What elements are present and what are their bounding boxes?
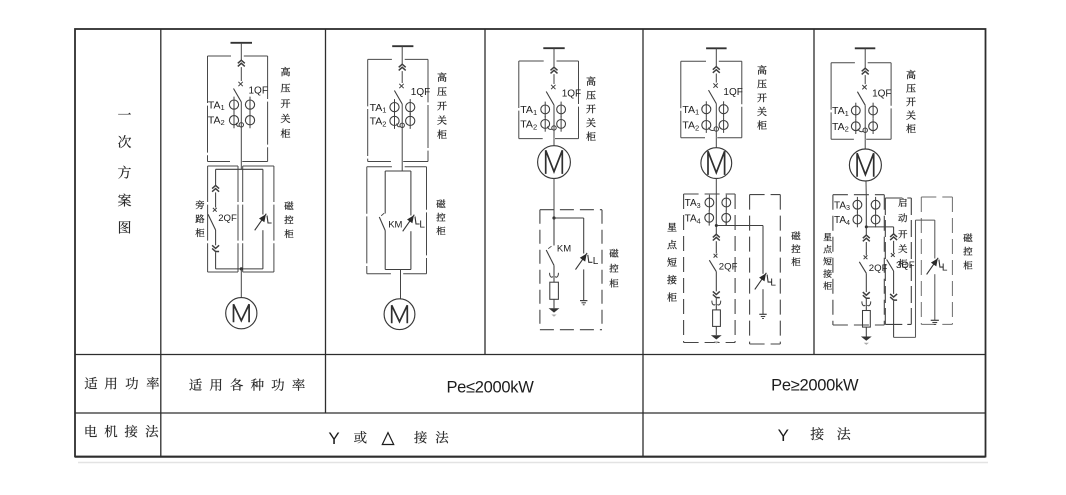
S3 magnetic-control cabinet dashed box xyxy=(540,209,602,211)
row header 电机接法 xyxy=(86,425,97,437)
S1 left branch wire lower xyxy=(215,230,217,245)
S4 star-point breaker 2QF xyxy=(714,254,718,258)
S2 wire to breaker xyxy=(401,71,403,83)
S1 right branch wire lower xyxy=(262,230,264,269)
S1 left branch wire middle xyxy=(215,192,217,207)
S5 drawout connector arcs xyxy=(862,301,865,305)
S4 wire fuse to earth xyxy=(715,326,717,335)
S5 wire switchgear to motor xyxy=(864,139,866,149)
S4 current transformer TA3 xyxy=(705,198,714,207)
S4 drawout contact (upper) xyxy=(713,67,720,73)
S5 wire to 2QF xyxy=(865,242,867,255)
scheme 2 group xyxy=(367,46,447,329)
S5 wire to fuse xyxy=(865,299,867,311)
svg-text:2QF: 2QF xyxy=(218,213,237,224)
S2 parallel branch rectangle top xyxy=(385,170,411,172)
S4 wire 2QF to lower drawout xyxy=(715,272,717,292)
S4 current transformer TA2 (two cores) xyxy=(702,121,711,130)
S5 HV switchgear cabinet box xyxy=(831,62,855,64)
S2 current transformer TA2 (two cores) xyxy=(390,116,399,125)
S2 cabinet label 磁控柜 xyxy=(436,199,445,208)
cell text 适用各种功率 xyxy=(189,379,202,391)
S1 magnetic-control cabinet box xyxy=(243,165,274,167)
S5 main wire through CT section xyxy=(865,198,867,235)
S2 wire switchgear to control cabinet xyxy=(401,162,403,172)
S5 drawout contact upper (2QF branch) xyxy=(863,235,870,241)
S4 fuse FU xyxy=(713,310,721,327)
S4 cabinet label 星点短接柜 xyxy=(667,223,676,232)
S2 left branch wire lower xyxy=(384,231,386,270)
S3 drawout connector arcs xyxy=(550,273,553,277)
S4 wire through CT section xyxy=(715,104,717,138)
table row line y2 xyxy=(75,412,986,414)
S4 thyristor valve L xyxy=(755,273,767,290)
table row line y1 xyxy=(75,354,986,356)
svg-text:KM: KM xyxy=(557,244,571,255)
S5 circuit breaker 1QF xyxy=(862,85,866,89)
S3 earth symbol xyxy=(580,300,587,302)
S5 starting branch wire upper xyxy=(893,227,895,234)
S2 wire through CT section xyxy=(401,104,403,162)
S4 thyristor branch wire upper xyxy=(762,226,764,274)
S2 left branch wire upper xyxy=(384,171,386,214)
S3 wire to breaker xyxy=(553,74,555,84)
S5 wire to 3QF xyxy=(893,241,895,253)
S1 drawout contact left branch upper xyxy=(212,186,219,192)
S3 current transformer TA2 (two cores) xyxy=(541,120,550,129)
S3 tap wire to thyristor branch xyxy=(554,217,584,219)
S2 right branch wire upper xyxy=(410,171,412,216)
row header 适用功率 xyxy=(85,377,98,389)
S5 star-point shorting cabinet dashed box xyxy=(833,194,884,196)
S4 circuit breaker 1QF xyxy=(713,83,717,87)
S5 starting switch cabinet dashed box xyxy=(885,197,911,199)
S5 cabinet label 星点短接柜 xyxy=(823,233,831,241)
delta symbol xyxy=(382,433,393,445)
S5 thyristor valve L xyxy=(927,258,939,275)
S4 incoming busbar tap xyxy=(706,47,727,49)
S5 earth symbol xyxy=(931,319,939,321)
S4 wire to breaker xyxy=(715,74,717,83)
S1 motor M xyxy=(226,298,257,329)
svg-text:2QF: 2QF xyxy=(869,263,888,274)
S3 HV switchgear cabinet box xyxy=(519,60,544,62)
S5 current transformer TA4 xyxy=(853,215,862,224)
S5 wire fuse to earth xyxy=(865,327,867,336)
S1 bypass breaker 2QF xyxy=(213,208,217,212)
S5 drawout contact lower (2QF branch) xyxy=(863,292,870,298)
S1 incoming busbar tap xyxy=(231,42,253,44)
S1 wire to motor xyxy=(240,269,242,298)
svg-text:Y: Y xyxy=(778,426,789,445)
S5 wire 3QF branch to loop bottom xyxy=(893,301,895,338)
S4 star-point shorting cabinet dashed box xyxy=(684,193,736,195)
S3 branch junction node xyxy=(552,216,555,219)
S4 current transformer TA4 xyxy=(705,213,714,222)
S1 right branch wire upper xyxy=(262,169,264,214)
row header 一次方案图 xyxy=(118,113,131,115)
S4 cabinet label 高压开关柜 xyxy=(758,65,767,74)
table column line x=325.5 xyxy=(325,29,327,413)
S3 wire fuse to earth xyxy=(553,299,555,308)
S2 current transformer TA1 (two cores) xyxy=(390,103,399,112)
S2 HV switchgear cabinet box xyxy=(368,58,392,60)
table outer border xyxy=(75,29,986,457)
S4 HV switchgear cabinet box xyxy=(681,60,706,62)
S3 drawout contact (upper) xyxy=(551,67,558,73)
S5 CT secondary earth circle xyxy=(858,129,863,132)
S2 wire to motor xyxy=(400,270,402,300)
S1 wire switchgear to bypass cabinets xyxy=(240,162,242,170)
svg-text:L: L xyxy=(942,262,948,273)
S5 loop bottom wire xyxy=(894,336,916,338)
svg-text:Pe≤2000kW: Pe≤2000kW xyxy=(446,379,534,397)
S5 loop riser wire xyxy=(915,220,917,337)
svg-text:Pe≥2000kW: Pe≥2000kW xyxy=(771,377,859,395)
S1 left branch wire bottom xyxy=(215,252,217,269)
S5 wire busbar to cabinet xyxy=(864,48,866,68)
S5 magnetic-control cabinet dashed box xyxy=(921,196,952,198)
S4 tap wire to thyristor branch xyxy=(716,225,763,227)
S5 wire to breaker xyxy=(864,75,866,84)
S4 wire switchgear to motor xyxy=(715,138,717,148)
S1 circuit breaker 1QF xyxy=(238,82,242,86)
S5 drawout contact upper (3QF branch) xyxy=(890,234,897,240)
svg-text:1QF: 1QF xyxy=(872,89,891,100)
S2 parallel branch rectangle bottom xyxy=(385,269,411,271)
S5 current transformer TA2 (two cores) xyxy=(851,122,860,131)
S5 current transformer TA1 (two cores) xyxy=(851,106,860,115)
S1 parallel branch rectangle bottom xyxy=(216,268,263,270)
S4 drawout connector arcs xyxy=(712,301,715,305)
S4 magnetic-control cabinet dashed box xyxy=(750,194,781,196)
S5 thyristor branch wire upper xyxy=(934,220,936,258)
S2 bypass contactor KM xyxy=(379,217,385,231)
S3 wire busbar to cabinet xyxy=(553,48,555,67)
S1 left branch wire upper xyxy=(215,169,217,185)
S4 motor M xyxy=(701,148,732,179)
S1 cabinet label 旁路柜 xyxy=(196,200,205,209)
S5 fuse FU xyxy=(863,311,871,328)
S3 earthing arrow xyxy=(549,308,560,312)
svg-text:2QF: 2QF xyxy=(719,261,738,272)
svg-text:1QF: 1QF xyxy=(411,87,430,98)
S1 wire busbar to cabinet xyxy=(240,43,242,60)
S4 cabinet label 磁控柜 xyxy=(791,231,800,240)
S3 circuit breaker 1QF xyxy=(551,85,555,89)
S4 earthing arrow xyxy=(711,335,722,339)
S1 current transformer TA1 (two cores) xyxy=(229,100,238,109)
S1 current transformer TA2 (two cores) xyxy=(229,116,238,125)
S2 motor M xyxy=(384,299,415,330)
S4 current transformer TA1 (two cores) xyxy=(702,105,711,114)
S1 CT secondary earth circle xyxy=(236,123,239,126)
scan shadow under bottom border xyxy=(78,462,988,464)
S3 thyristor valve L xyxy=(576,253,588,270)
S4 main wire through CT section xyxy=(715,198,717,234)
S1 HV switchgear cabinet box xyxy=(208,55,232,57)
S1 drawout contact left branch lower xyxy=(212,245,219,251)
S5 cabinet label 磁控柜 xyxy=(963,233,972,242)
table column line x=485 xyxy=(484,29,486,355)
table column line x=814 xyxy=(813,29,815,355)
S3 wire through CT section xyxy=(553,105,555,139)
S5 current transformer TA3 xyxy=(853,200,862,209)
S3 wire switchgear to motor xyxy=(553,139,555,146)
S2 wire busbar to cabinet xyxy=(401,46,403,64)
S5 tap wire to starting branch xyxy=(866,226,893,228)
S4 wire busbar to cabinet xyxy=(715,48,717,66)
S2 drawout contact (upper) xyxy=(399,64,406,70)
S5 incoming busbar tap xyxy=(855,47,876,49)
S4 drawout contact upper xyxy=(713,234,720,240)
S1 parallel branch rectangle top xyxy=(216,168,263,170)
S4 wire thyristor to earth xyxy=(762,289,764,314)
S4 drawout contact lower xyxy=(713,291,720,297)
scheme 3 group xyxy=(519,48,619,330)
S1 wire to breaker xyxy=(240,67,242,81)
table column line x=643 xyxy=(642,29,644,457)
S1 bypass cabinet box 旁路柜 xyxy=(208,165,238,167)
S5 starting breaker 3QF xyxy=(891,253,895,257)
S4 wire to 2QF xyxy=(715,241,717,253)
S4 CT branch conductor to tap xyxy=(725,222,727,225)
S1 junction node xyxy=(240,267,243,270)
S2 cabinet label 高压开关柜 xyxy=(438,73,447,82)
S2 CT secondary earth circle xyxy=(397,124,400,127)
S5 wire thyristor to earth xyxy=(934,274,936,320)
S3 incoming busbar tap xyxy=(543,47,564,49)
S1 cabinet label 磁控柜 xyxy=(284,201,293,210)
S1 cabinet label 高压开关柜 xyxy=(281,67,290,76)
S5 loop top wire xyxy=(916,219,935,221)
S3 wire KM to fuse xyxy=(553,265,555,282)
S5 wire 3QF to lower drawout xyxy=(893,271,895,294)
scheme 4 group xyxy=(667,48,800,344)
S4 CT secondary earth circle xyxy=(709,128,715,131)
S3 motor M xyxy=(538,146,571,179)
S5 wire through CT section xyxy=(864,105,866,139)
svg-text:L: L xyxy=(419,219,425,230)
bottom border thickening xyxy=(75,457,986,459)
S1 drawout contact (upper) xyxy=(238,60,245,66)
S5 cabinet label 启动开关柜 xyxy=(898,198,906,207)
S5 motor M xyxy=(849,149,881,181)
S4 wire motor to star-point cabinet xyxy=(715,179,717,199)
S2 circuit breaker 1QF xyxy=(399,84,403,88)
table column line x=160.8 xyxy=(160,29,162,457)
scheme 5 group xyxy=(823,48,972,345)
S5 drawout contact lower (3QF branch) xyxy=(890,294,897,300)
svg-text:L: L xyxy=(770,277,776,288)
S5 drawout contact (upper) xyxy=(862,68,869,74)
S4 earth symbol xyxy=(759,313,766,315)
S4 wire to fuse xyxy=(715,298,717,310)
S1 thyristor valve L xyxy=(255,214,267,231)
svg-text:Y: Y xyxy=(328,429,339,448)
S1 wire through CT section xyxy=(240,102,242,162)
svg-text:L: L xyxy=(593,256,599,267)
S5 earthing arrow xyxy=(861,337,872,341)
S2 right branch wire lower xyxy=(410,231,412,269)
S3 current transformer TA1 (two cores) xyxy=(541,105,550,114)
S5 cabinet label 高压开关柜 xyxy=(907,70,916,79)
S5 wire 2QF to lower drawout xyxy=(865,273,867,292)
scheme 1 group xyxy=(195,43,293,329)
S3 fuse FU xyxy=(550,282,559,299)
S3 cabinet label 高压开关柜 xyxy=(587,77,596,86)
S3 cabinet label 磁控柜 xyxy=(609,249,618,258)
S3 CT secondary earth circle xyxy=(547,127,552,130)
svg-text:1QF: 1QF xyxy=(249,86,268,97)
S3 bypass contactor KM xyxy=(553,218,555,246)
S2 thyristor valve L xyxy=(403,215,415,232)
S5 star-point breaker 2QF xyxy=(864,255,868,259)
S3 wire thyristor to earth xyxy=(583,269,585,300)
svg-text:KM: KM xyxy=(388,220,402,231)
S2 incoming busbar tap xyxy=(392,45,413,47)
svg-text:1QF: 1QF xyxy=(723,87,742,98)
S2 magnetic-control cabinet box xyxy=(367,166,392,168)
S5 wire motor to star-point cabinet xyxy=(865,181,867,198)
S3 wire motor to control cabinet xyxy=(553,179,555,219)
svg-text:1QF: 1QF xyxy=(562,89,581,100)
